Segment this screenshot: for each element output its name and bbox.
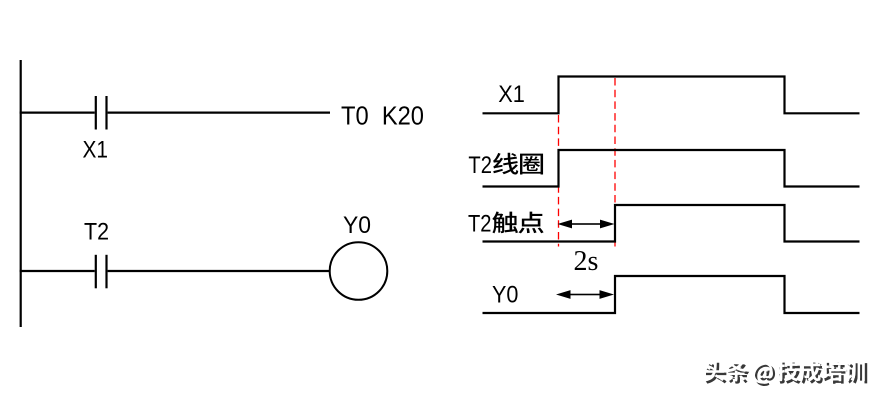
- svg-text:X1: X1: [498, 81, 525, 108]
- dashed red timing reference line 2 (at T2 contact rise): [614, 78, 616, 247]
- svg-text:Y0: Y0: [492, 281, 518, 308]
- contact X1 right bar: [105, 96, 107, 130]
- svg-text:T2: T2: [468, 152, 492, 179]
- watermark toutiao@jicheng peixun white face: [703, 360, 864, 384]
- wire rung1 left segment: [20, 111, 95, 113]
- coil Y0 circle: [330, 242, 388, 300]
- label T2 contact (waveform) CJK chu dian: [492, 212, 518, 234]
- double arrow 2s delay (Y0 row): [556, 290, 614, 299]
- svg-text:X1: X1: [83, 137, 109, 164]
- contact T2 right bar: [105, 255, 107, 288]
- wire rung1 right segment: [108, 111, 330, 113]
- watermark toutiao@jicheng peixun shadow: [706, 362, 867, 386]
- wire rung2 right segment: [108, 270, 330, 272]
- waveform X1: [483, 77, 860, 114]
- label T2 coil (waveform) CJK xian quan: [493, 153, 518, 175]
- svg-text:T2: T2: [84, 218, 109, 245]
- waveform Y0: [483, 276, 860, 313]
- contact X1 left bar: [95, 96, 97, 130]
- svg-text:T0 K20: T0 K20: [341, 100, 424, 130]
- waveform T2 contact: [483, 205, 860, 242]
- contact T2 left bar: [95, 255, 97, 288]
- svg-text:T2: T2: [468, 210, 492, 237]
- dashed red timing reference line 1 (at X1 rise): [558, 115, 560, 247]
- double arrow 2s delay (T2 contact row): [558, 220, 615, 229]
- left power rail: [20, 60, 22, 327]
- svg-text:2s: 2s: [574, 246, 599, 277]
- waveform T2 coil: [483, 150, 860, 187]
- svg-text:Y0: Y0: [343, 212, 371, 239]
- wire rung2 left segment: [20, 270, 95, 272]
